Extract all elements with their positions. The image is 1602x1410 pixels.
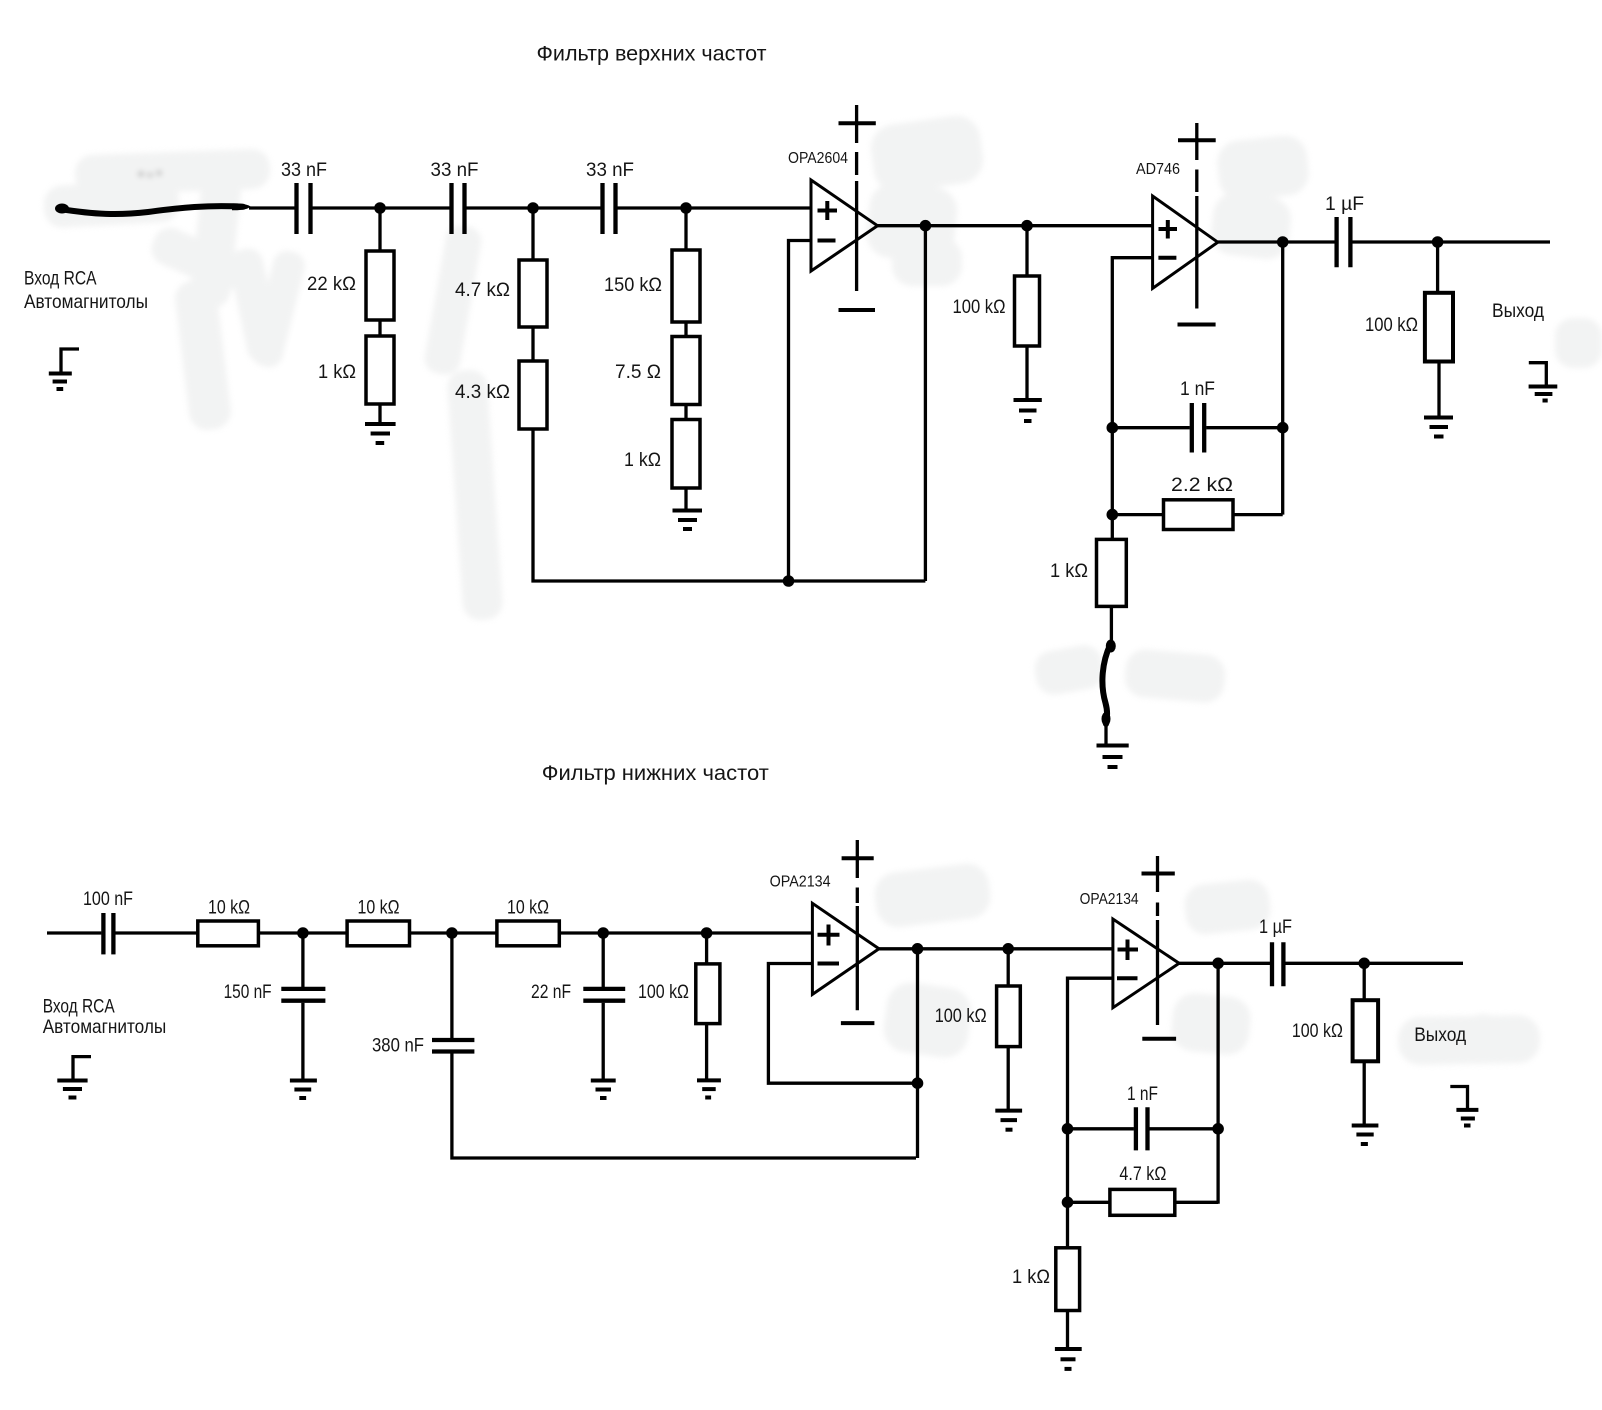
power: AD746 V- [1178, 323, 1216, 327]
wire: tap down to load 100k [1436, 242, 1439, 293]
junction: output fb tap [1277, 236, 1289, 248]
wire: 100 nF to R1 10k [115, 931, 197, 934]
resistor 4.3 kΩ [455, 361, 547, 429]
wire: AD746 supply rail through body [1195, 196, 1198, 309]
svg-text:10 kΩ: 10 kΩ [358, 898, 400, 919]
wire: load 100k to ground (LPF) [1363, 1061, 1366, 1124]
wire: 4.3k down to feedback rail [531, 429, 534, 583]
svg-text:33 nF: 33 nF [281, 160, 327, 181]
wire: node G down to 100k [705, 933, 708, 964]
op-amp U2 AD746 [1136, 161, 1218, 288]
svg-text:1 kΩ: 1 kΩ [624, 450, 661, 471]
wire: load 100k to ground [1437, 362, 1440, 417]
svg-text:Фильтр нижних частот: Фильтр нижних частот [542, 762, 769, 785]
wire: 1k to squiggle [1110, 606, 1113, 644]
wire: output drop to 380 nF rail [916, 949, 919, 1158]
wire: node B down to R 4.7k [531, 208, 534, 260]
ground: below interstage 100k [995, 1111, 1022, 1130]
resistor 10 kΩ (LPF R2) [347, 898, 409, 946]
resistor 2.2 kΩ (AD746 feedback) [1164, 475, 1234, 530]
wire: OPA2134 (2) inverting input run [1068, 978, 1113, 1129]
ground: below LPF 1k leg [1055, 1349, 1082, 1369]
junction: fb riser at 1 nF [1212, 1123, 1224, 1135]
wire: 4.7k right lead [1175, 1201, 1218, 1204]
wire: 380 nF down and across to OPA2134 output [452, 1054, 916, 1159]
junction: OPA2604 output feedback tap [920, 220, 932, 232]
wire: input lead to C1 [249, 206, 295, 209]
junction: node G [701, 927, 713, 939]
svg-text:100 kΩ: 100 kΩ [1365, 315, 1418, 336]
capacitor 1 µF (LPF output coupling) [1259, 917, 1292, 986]
svg-text:7.5 Ω: 7.5 Ω [615, 362, 661, 383]
wire: R2 to node E [410, 931, 497, 934]
wire: output feedback drop [924, 226, 927, 581]
node: Вход RCA Автомагнитолы (HPF input label) [24, 268, 148, 314]
svg-text:100 kΩ: 100 kΩ [1292, 1021, 1343, 1042]
svg-text:AD746: AD746 [1136, 161, 1180, 178]
resistor 100 kΩ (interstage shunt) [935, 986, 1021, 1047]
wire: tap down to 100k [1025, 226, 1028, 276]
wire: 4.7k left lead [1068, 1201, 1110, 1204]
wire: 1k to ground [378, 404, 381, 422]
junction: node C [680, 202, 692, 214]
wire: 150k to 7.5 [684, 322, 687, 337]
wire: node E down to 380 nF [450, 933, 453, 1038]
power: OPA2134 (1) V+ [842, 840, 874, 903]
junction: node A [374, 202, 386, 214]
capacitor C2 33 nF [431, 160, 479, 234]
wire: fb node to 1 nF left plate [1068, 1127, 1134, 1130]
svg-text:OPA2134: OPA2134 [770, 874, 831, 891]
svg-text:Выход: Выход [1492, 300, 1545, 322]
wire: 1k to ground (node C chain) [684, 488, 687, 509]
capacitor 380 nF (feedback) [372, 1036, 474, 1057]
capacitor 22 nF (shunt) [531, 982, 625, 1003]
resistor 100 kΩ (output load) [1365, 293, 1453, 362]
svg-text:100 kΩ: 100 kΩ [935, 1006, 987, 1027]
wire: C2 to node B [467, 206, 601, 209]
junction: fb node left upper (2) [1062, 1123, 1074, 1135]
junction: node E [446, 927, 458, 939]
ground: below interstage 100k [1014, 400, 1042, 421]
ground: below 22 nF [591, 1081, 616, 1099]
svg-text:1 kΩ: 1 kΩ [318, 362, 356, 383]
junction: interstage 100k tap [1002, 943, 1014, 955]
wire: AD746 output to 1 µF [1218, 240, 1335, 243]
power: OPA2134 (1) V- [841, 1021, 875, 1025]
svg-text:380 nF: 380 nF [372, 1036, 424, 1057]
wire: OPA2134 (1) output bus [879, 947, 1113, 950]
svg-text:Вход RCA: Вход RCA [24, 268, 97, 290]
wire: node D down to 150 nF [301, 933, 304, 987]
svg-text:33 nF: 33 nF [586, 160, 634, 181]
wire: squiggle to ground [1104, 722, 1107, 744]
ground: below 150 nF [290, 1081, 317, 1099]
wire: feedback bottom rail [532, 579, 926, 582]
node: Вход RCA Автомагнитолы (LPF input label) [43, 996, 167, 1039]
resistor 100 kΩ (bias shunt) [638, 964, 720, 1024]
wire: fb riser output to 4.7k [1216, 963, 1219, 1204]
svg-text:OPA2134: OPA2134 [1080, 891, 1139, 908]
resistor 1 kΩ (OPA2134 ground leg) [1012, 1248, 1080, 1311]
junction: inverting feedback tap [783, 575, 795, 587]
wire: fb right riser to output [1281, 242, 1284, 515]
wire: OPA2134 (1) supply rail through body [856, 906, 859, 1010]
power: OPA2604 V+ [839, 105, 876, 175]
svg-text:10 kΩ: 10 kΩ [208, 898, 250, 919]
wire: OPA2604 supply rail through body [855, 181, 858, 291]
wire: C1 to node A [313, 206, 450, 209]
capacitor 1 nF (AD746 feedback) [1180, 379, 1215, 453]
wire: 1 µF to output end [1352, 240, 1550, 243]
wire: node A down to R 22k [378, 208, 381, 251]
wire: LPF input to 100 nF [47, 931, 101, 934]
wire: bias 100k to ground [705, 1024, 708, 1079]
wire: AD746 inverting input run [1112, 258, 1152, 428]
ground: LPF input [57, 1057, 91, 1098]
svg-text:Автомагнитолы: Автомагнитолы [43, 1016, 167, 1038]
wire: fb node left drop [1111, 428, 1114, 540]
power: OPA2604 V- [839, 308, 876, 312]
resistor 100 kΩ (LPF output load) [1292, 1000, 1378, 1061]
junction: fb right node [1277, 422, 1289, 434]
svg-text:150 kΩ: 150 kΩ [604, 275, 662, 296]
junction: 4.7k left node [1062, 1197, 1074, 1209]
wire: 1k to ground (LPF) [1066, 1311, 1069, 1348]
wire: OPA2604 output to AD746 [878, 224, 1153, 227]
svg-text:1 nF: 1 nF [1180, 379, 1215, 400]
svg-text:100 kΩ: 100 kΩ [638, 982, 689, 1003]
resistor 100 kΩ (interstage shunt) [953, 276, 1040, 346]
ground: below output load [1424, 418, 1453, 437]
wire: tap down to load 100k [1363, 963, 1366, 1000]
svg-text:150 nF: 150 nF [224, 982, 272, 1003]
svg-text:Фильтр верхних частот: Фильтр верхних частот [537, 43, 767, 66]
ground: below bias 100k [697, 1080, 721, 1097]
ground: below AD746 1k leg [1097, 746, 1129, 768]
svg-text:100 nF: 100 nF [83, 889, 133, 910]
power: AD746 V+ [1178, 123, 1216, 192]
svg-text:2.2 kΩ: 2.2 kΩ [1171, 475, 1233, 496]
svg-text:OPA2604: OPA2604 [788, 150, 848, 167]
wire: 150 nF to ground [301, 1003, 304, 1079]
svg-text:10 kΩ: 10 kΩ [507, 898, 549, 919]
ground: below node C chain [673, 511, 703, 530]
resistor 150 kΩ [604, 250, 700, 322]
wire: 2.2k left lead [1112, 513, 1163, 516]
op-amp U4 OPA2134 [1080, 891, 1180, 1008]
junction: 2.2k left node [1107, 509, 1119, 521]
junction: 100k shunt tap [1021, 220, 1033, 232]
wire: OPA2134 (1) inverting loop [768, 964, 916, 1084]
svg-text:22 nF: 22 nF [531, 982, 571, 1003]
ground: below 1 kΩ [365, 424, 396, 443]
resistor 7.5 Ω [615, 337, 700, 405]
junction: LPF output load tap [1358, 958, 1370, 970]
svg-text:1 µF: 1 µF [1325, 194, 1364, 215]
resistor 1 kΩ (below 22k) [318, 336, 394, 404]
wire: 1 µF to LPF output end [1285, 962, 1463, 965]
wire: OPA2134 (2) supply rail through body [1156, 920, 1159, 1025]
wire: node C down to R 150k [684, 208, 687, 250]
svg-text:33 nF: 33 nF [431, 160, 479, 181]
junction: output load tap [1432, 236, 1444, 248]
svg-text:Вход RCA: Вход RCA [43, 996, 115, 1018]
svg-text:Автомагнитолы: Автомагнитолы [24, 291, 148, 313]
wire: 4.7k to 4.3k [531, 327, 534, 361]
svg-text:1 kΩ: 1 kΩ [1012, 1267, 1050, 1288]
capacitor 100 nF (LPF input coupling) [83, 889, 133, 954]
resistor 4.7 kΩ [455, 260, 547, 327]
wire: hand-drawn HPF input lead [55, 203, 251, 214]
resistor 10 kΩ (LPF R1) [198, 898, 259, 946]
op-amp U3 OPA2134 [770, 874, 879, 995]
wire: 2.2k right lead [1233, 513, 1283, 516]
wire: 1 nF right plate to fb riser [1150, 1127, 1219, 1130]
resistor 1 kΩ (AD746 ground leg) [1050, 539, 1126, 606]
svg-text:4.7 kΩ: 4.7 kΩ [1119, 1164, 1166, 1185]
power: OPA2134 (2) V- [1142, 1037, 1176, 1041]
junction: inverting loop meets output drop [912, 1077, 924, 1089]
wire: 100k to ground [1025, 346, 1028, 398]
resistor 4.7 kΩ (OPA2134 feedback) [1110, 1164, 1175, 1215]
ground: HPF output corner [1529, 363, 1558, 401]
wire: tap down to 100k [1007, 949, 1010, 986]
capacitor C3 33 nF [586, 160, 634, 234]
wire: fb node left drop to 4.7k [1066, 1129, 1069, 1248]
junction: output fb tap (2) [1212, 958, 1224, 970]
capacitor 150 nF (shunt) [224, 982, 326, 1003]
svg-text:22 kΩ: 22 kΩ [307, 274, 356, 295]
wire: 22k to 1k [378, 320, 381, 336]
junction: output fb tap (1) [912, 943, 924, 955]
junction: node F [597, 927, 609, 939]
wire: hand-drawn ground lead [1102, 640, 1116, 727]
wire: 22 nF to ground [602, 1003, 605, 1079]
svg-text:100 kΩ: 100 kΩ [953, 297, 1006, 318]
resistor 10 kΩ (LPF R3) [497, 898, 559, 946]
junction: node D [297, 927, 309, 939]
wire: R1 to node D [258, 931, 347, 934]
wire: R3 to OPA2134 noninverting input [559, 931, 812, 934]
ground: LPF output corner [1450, 1087, 1478, 1126]
wire: node F down to 22 nF [602, 933, 605, 987]
svg-text:1 kΩ: 1 kΩ [1050, 561, 1088, 582]
capacitor 1 µF (output coupling) [1325, 194, 1364, 267]
junction: node B [527, 202, 539, 214]
wire: OPA2134 (2) output to 1 µF [1179, 962, 1270, 965]
op-amp U1 OPA2604 [788, 150, 878, 271]
svg-text:1 nF: 1 nF [1127, 1084, 1158, 1105]
wire: 1 nF right plate to fb right riser [1206, 426, 1283, 429]
wire: 7.5 to 1k [684, 405, 687, 420]
wire: C3 to OPA2604 noninverting input [618, 206, 812, 209]
wire: fb node to 1 nF left plate [1112, 426, 1190, 429]
ground: HPF input [49, 349, 79, 389]
junction: AD746 fb node left upper [1107, 422, 1119, 434]
capacitor C1 33 nF [281, 160, 327, 234]
svg-text:1 µF: 1 µF [1259, 917, 1292, 938]
power: OPA2134 (2) V+ [1142, 856, 1175, 916]
wire: interstage 100k to ground [1007, 1047, 1010, 1109]
wire: inverting input riser [789, 241, 812, 582]
resistor 22 kΩ [307, 251, 394, 320]
ground: below LPF output load [1352, 1126, 1379, 1145]
resistor 1 kΩ (node C chain) [624, 420, 700, 489]
capacitor 1 nF (OPA2134 feedback) [1127, 1084, 1158, 1150]
svg-text:Выход: Выход [1414, 1024, 1467, 1046]
svg-text:4.7 kΩ: 4.7 kΩ [455, 280, 510, 301]
svg-text:4.3 kΩ: 4.3 kΩ [455, 382, 510, 403]
